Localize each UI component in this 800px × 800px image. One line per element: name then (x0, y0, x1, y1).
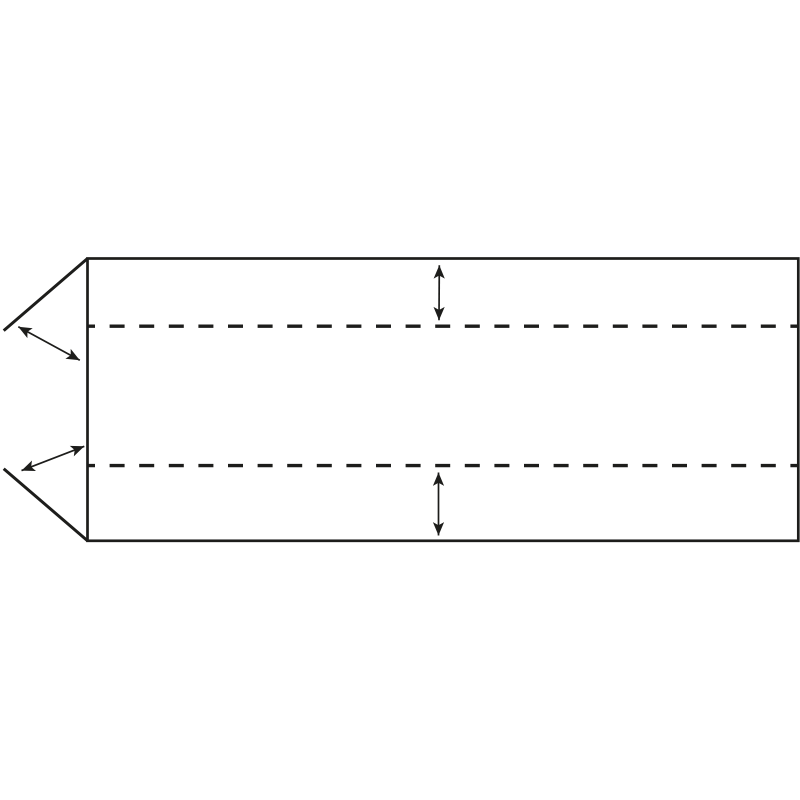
bottom fold line (dashed) (88, 464, 799, 467)
panel outline (bag body rectangle) (88, 259, 799, 541)
top fold line (dashed) (88, 325, 799, 328)
arrow-lower-diagonal (22, 446, 85, 471)
arrow-bottom-vertical (433, 473, 444, 536)
bottom-left flap line (4, 469, 88, 541)
arrow-upper-diagonal (18, 327, 80, 360)
arrow-top-vertical (434, 265, 445, 320)
top-left flap line (4, 259, 88, 331)
